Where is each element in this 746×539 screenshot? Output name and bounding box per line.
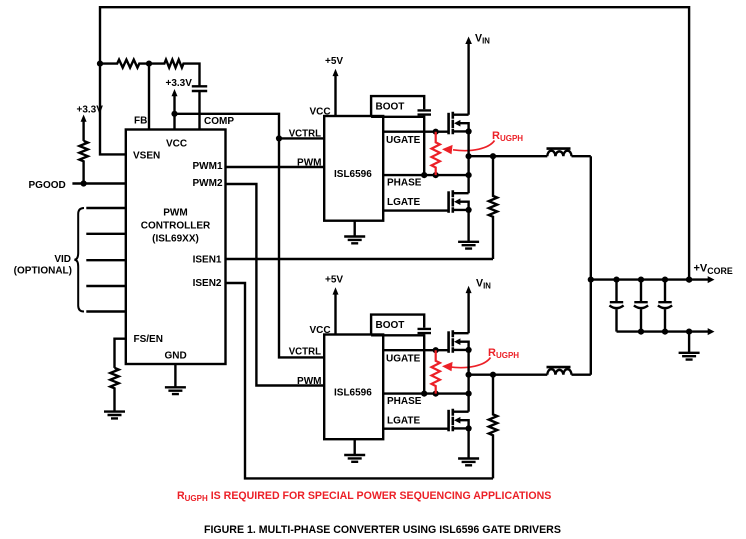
wire Q1 source to Q2 drain <box>467 131 469 193</box>
transistor Q4 (lower MOSFET, bottom phase) <box>449 409 472 432</box>
svg-text:VSEN: VSEN <box>133 151 160 162</box>
wire Q4 source to ground <box>467 428 469 458</box>
svg-text:PGOOD: PGOOD <box>29 180 66 191</box>
svg-text:BOOT: BOOT <box>376 320 405 331</box>
inductor L1 <box>547 151 571 157</box>
wire output bus vertical <box>590 156 592 375</box>
wire VID lines <box>86 208 126 312</box>
wire red callout arrow (top) <box>453 141 495 151</box>
svg-text:(OPTIONAL): (OPTIONAL) <box>14 266 72 277</box>
svg-text:PWM: PWM <box>297 158 321 169</box>
node UGATE junction <box>433 129 439 135</box>
svg-text:UGATE: UGATE <box>386 354 421 365</box>
transistor Q2 (lower MOSFET, top phase) <box>449 190 472 213</box>
svg-text:FB: FB <box>134 116 147 127</box>
power +3.3V (VCC arrow) <box>173 96 175 130</box>
svg-text:UGATE: UGATE <box>386 135 421 146</box>
power +3.3V (PGOOD pull-up arrow) <box>82 121 84 141</box>
wire FS/EN <box>115 339 126 368</box>
svg-text:VCC: VCC <box>310 325 331 336</box>
svg-text:PHASE: PHASE <box>387 396 422 407</box>
op-amp U1 PWM controller box <box>126 130 226 365</box>
capacitor C2 (bootstrap, top) <box>418 110 432 114</box>
power +5V (U2 VCC) <box>334 76 336 117</box>
capacitor C5 (output) <box>610 280 623 303</box>
capacitor C7 (output) <box>658 280 671 303</box>
node sense tap junction (top) <box>490 153 496 159</box>
svg-text:VCC: VCC <box>310 107 331 118</box>
resistor R2 (compensation) <box>149 60 200 87</box>
wire ISEN2 <box>226 283 494 478</box>
node output bus junction <box>588 277 594 283</box>
svg-text:LGATE: LGATE <box>387 197 420 208</box>
power V_IN (bottom phase) <box>467 293 469 334</box>
node PHASE junctions (bottom) <box>421 391 427 397</box>
wire VCTRL to top driver <box>279 137 324 139</box>
svg-text:VCC: VCC <box>166 139 187 150</box>
wire LGATE (U2) <box>383 209 448 211</box>
wire FB <box>148 64 150 130</box>
wire Q3 source to Q4 drain <box>467 350 469 412</box>
node PGOOD junction <box>81 180 87 186</box>
wire VCTRL rail <box>175 114 325 358</box>
op-amp U2 gate driver ISL6596 (top) <box>324 116 383 221</box>
wire UGATE (U3) <box>383 349 448 351</box>
node UGATE junction (bottom) <box>433 347 439 353</box>
capacitor C6 (output) <box>634 280 647 303</box>
resistor R5 (ISEN1 sense) <box>489 156 497 259</box>
wire Q2 source to ground <box>467 210 469 242</box>
ground (U3) <box>344 439 365 462</box>
wire PWM1 to top driver PWM <box>226 166 325 168</box>
node sense tap junction (bottom) <box>490 372 496 378</box>
svg-text:VID: VID <box>54 254 71 265</box>
ground (Q4 source) <box>458 459 479 466</box>
inductor L1 core bar <box>547 147 571 150</box>
resistor R_UGPH (bottom, red) <box>432 350 440 393</box>
capacitor C1 (compensation) <box>192 86 207 91</box>
wire L1 to output bus <box>572 155 591 157</box>
op-amp U3 gate driver ISL6596 (bottom) <box>324 335 383 440</box>
svg-text:PWM: PWM <box>163 208 187 219</box>
transistor Q1 (upper MOSFET, top phase) <box>449 112 472 135</box>
node top feedback junction <box>686 277 692 283</box>
resistor R3 (PGOOD pull-up) <box>79 141 87 184</box>
node VCTRL junction <box>276 135 282 141</box>
ground (output return) <box>679 353 700 360</box>
power +5V (U3 VCC) <box>334 294 336 335</box>
svg-text:FS/EN: FS/EN <box>134 334 163 345</box>
svg-text:+5V: +5V <box>325 275 343 286</box>
node SW junction <box>466 153 472 159</box>
wire PGOOD <box>72 182 125 184</box>
svg-text:VCTRL: VCTRL <box>289 128 321 139</box>
node VCC junction <box>171 111 177 117</box>
svg-text:PWM: PWM <box>297 376 321 387</box>
ground (controller GND) <box>165 387 186 394</box>
node return bus junctions <box>638 329 644 335</box>
inductor L2 <box>547 369 571 375</box>
svg-text:COMP: COMP <box>204 116 234 127</box>
ground (Q2 source) <box>458 242 479 249</box>
svg-text:CONTROLLER: CONTROLLER <box>141 221 211 232</box>
svg-text:ISL6596: ISL6596 <box>334 388 372 399</box>
ground (FS/EN resistor) <box>104 412 125 419</box>
ground (U2) <box>344 221 365 244</box>
svg-text:+5V: +5V <box>325 56 343 67</box>
transistor Q3 (upper MOSFET, bottom phase) <box>449 330 472 353</box>
svg-text:LGATE: LGATE <box>387 416 420 427</box>
node bus junctions <box>613 277 619 283</box>
wire return to ground <box>688 332 690 353</box>
svg-text:ISL6596: ISL6596 <box>334 169 372 180</box>
wire red callout arrow (bottom) <box>449 358 491 368</box>
pin BOOT box (U3) <box>371 315 424 336</box>
inductor L2 core bar <box>547 366 571 369</box>
svg-text:PHASE: PHASE <box>387 178 422 189</box>
svg-text:RUGPH IS REQUIRED FOR SPECIAL: RUGPH IS REQUIRED FOR SPECIAL POWER SEQU… <box>177 490 551 503</box>
node R1/R2 junction <box>146 61 152 67</box>
svg-text:PWM2: PWM2 <box>193 178 223 189</box>
wire ISEN1 <box>226 258 494 260</box>
svg-text:+3.3V: +3.3V <box>77 105 104 116</box>
wire UGATE (U2) <box>383 130 448 132</box>
node FB junction <box>97 61 103 67</box>
svg-text:ISEN1: ISEN1 <box>193 255 222 266</box>
resistor R6 (ISEN2 sense) <box>489 375 497 479</box>
svg-text:BOOT: BOOT <box>376 102 405 113</box>
pin BOOT box (U2) <box>371 96 424 117</box>
wire bootstrap to PHASE <box>423 116 425 176</box>
resistor R4 (FS/EN) <box>110 368 118 412</box>
wire COMP <box>198 91 200 130</box>
resistor R_UGPH (top, red) <box>432 132 440 175</box>
wire LGATE (U3) <box>383 428 448 430</box>
wire bootstrap to PHASE (bottom) <box>423 334 425 394</box>
wire PHASE (U3) <box>383 392 468 394</box>
node VID brace <box>74 208 84 312</box>
wire SW output to inductor <box>469 155 548 157</box>
node SW junction (bottom) <box>466 372 472 378</box>
node PHASE junctions <box>421 172 427 178</box>
capacitor C3 (bootstrap, bottom) <box>418 329 432 333</box>
wire VSEN feedback loop (top) <box>100 7 689 279</box>
wire +VCORE bus <box>591 278 709 280</box>
wire SW output to inductor (bottom) <box>469 374 548 376</box>
wire return bus <box>617 330 709 332</box>
svg-text:GND: GND <box>165 351 187 362</box>
svg-text:FIGURE 1. MULTI-PHASE CONVERT: FIGURE 1. MULTI-PHASE CONVERTER USING IS… <box>204 524 561 536</box>
svg-text:VCTRL: VCTRL <box>289 347 321 358</box>
svg-text:+3.3V: +3.3V <box>166 78 193 89</box>
wire PHASE (U2) <box>383 174 468 176</box>
power V_IN (top phase) <box>467 43 469 115</box>
svg-text:(ISL69XX): (ISL69XX) <box>152 234 199 245</box>
resistor R1 (feedback divider) <box>100 60 149 68</box>
wire L2 to output bus <box>572 374 591 376</box>
svg-text:PWM1: PWM1 <box>193 161 223 172</box>
wire GND pin <box>174 364 176 387</box>
svg-text:ISEN2: ISEN2 <box>193 278 222 289</box>
wire PWM2 to bottom driver PWM <box>226 184 325 386</box>
